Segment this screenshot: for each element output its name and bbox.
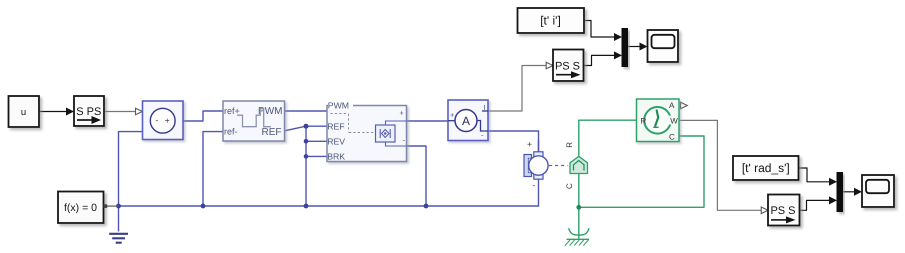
svg-text:A: A [462, 114, 470, 128]
svg-text:-: - [155, 115, 158, 125]
svg-text:R: R [565, 142, 574, 148]
svg-text:W: W [670, 117, 678, 126]
svg-text:REV: REV [327, 136, 345, 146]
svg-text:PWM: PWM [328, 100, 349, 110]
svg-text:f(x) = 0: f(x) = 0 [64, 202, 97, 214]
svg-text:+: + [527, 139, 532, 149]
svg-text:C: C [669, 132, 675, 141]
svg-text:R: R [641, 116, 647, 125]
svg-text:BRK: BRK [327, 151, 345, 161]
svg-text:+: + [400, 109, 405, 118]
svg-text:ref-: ref- [224, 126, 238, 136]
svg-text:+: + [450, 111, 455, 120]
svg-text:REF: REF [327, 122, 344, 132]
svg-text:[t' i']: [t' i'] [540, 13, 561, 27]
svg-text:A: A [669, 101, 675, 110]
svg-text:PS S: PS S [770, 205, 795, 217]
svg-text:u: u [21, 107, 26, 118]
svg-text:[t' rad_s']: [t' rad_s'] [742, 161, 790, 175]
svg-text:ref+: ref+ [224, 106, 240, 116]
svg-text:C: C [565, 183, 574, 189]
svg-text:+: + [165, 116, 170, 126]
svg-text:I: I [484, 103, 486, 112]
svg-text:PS S: PS S [555, 61, 580, 73]
svg-text:PWM: PWM [258, 106, 282, 117]
svg-text:REF: REF [262, 127, 282, 138]
svg-text:S PS: S PS [76, 106, 101, 118]
svg-text:-: - [532, 180, 535, 190]
